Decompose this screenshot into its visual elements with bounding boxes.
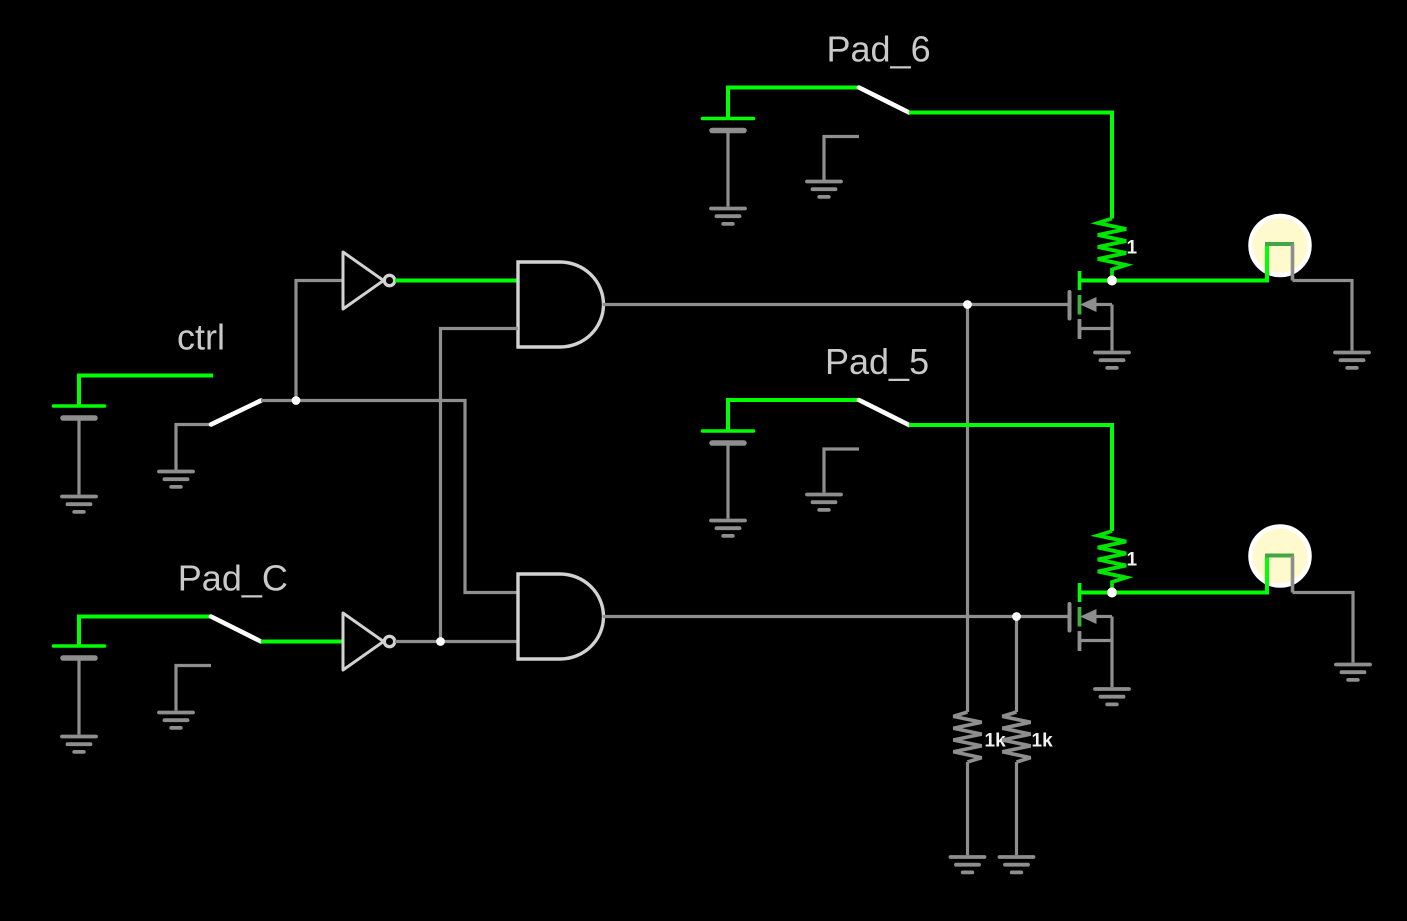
inverter U2 output bubble	[384, 636, 394, 646]
svg-text:ctrl: ctrl	[177, 317, 225, 358]
MOSFET Q2 body lead	[1096, 615, 1112, 618]
node U2 output junction dot	[436, 637, 445, 646]
wire SW_Pad6 pole to resistor R1	[909, 113, 1112, 219]
wire AND U4 output to MOSFET Q2 gate	[603, 615, 1070, 618]
node at U4 output junction dot	[1012, 612, 1021, 621]
svg-text:Pad_5: Pad_5	[825, 341, 929, 382]
MOSFET Q1 drain terminal tick	[1078, 271, 1082, 290]
MOSFET Q2 channel source segment	[1078, 631, 1082, 651]
lamp LP1 filament top bar	[1265, 242, 1294, 246]
wire Q2 source to ground	[1110, 617, 1113, 688]
lamp LP1 filament left leg	[1265, 244, 1269, 283]
wire R3 to ground	[966, 762, 969, 855]
battery V1 (ctrl source) positive lead wire	[79, 376, 213, 407]
battery V1 positive plate	[54, 404, 105, 408]
wire V3 negative to ground	[726, 131, 729, 207]
wire AND U3 input 2 from inverter U2 output node	[441, 329, 519, 642]
battery V4 negative plate	[712, 440, 744, 446]
MOSFET Q2 body diode arrow	[1080, 609, 1097, 624]
wire Q1 source to ground	[1110, 305, 1113, 351]
AND gate U4 body	[518, 574, 604, 659]
switch SW_Pad6 lower throw wire	[824, 137, 859, 181]
node N1 wire (drain of Q1 to lamp LP1)	[1080, 279, 1268, 283]
ground (below R3)	[951, 857, 985, 872]
node N2 junction dot	[1107, 588, 1117, 598]
resistor R1 zigzag	[1098, 219, 1126, 281]
inverter U1 output bubble	[384, 275, 394, 285]
wire V2 negative to ground	[77, 658, 80, 735]
wire SW_ctrl pole to node ctrl	[261, 399, 296, 402]
ground (below V4)	[711, 521, 745, 536]
node at U3 output junction dot	[963, 300, 972, 309]
resistor R3 zigzag	[953, 712, 981, 762]
MOSFET Q1 body lead	[1096, 303, 1112, 306]
ground (below V2)	[62, 737, 96, 752]
ground (lamp LP2)	[1336, 665, 1370, 680]
node N2 wire (drain of Q2 to lamp LP2)	[1080, 591, 1268, 595]
switch SW_PadC lower throw wire	[176, 666, 211, 711]
wire V1 negative to ground	[77, 418, 80, 495]
ground (below V3)	[711, 209, 745, 224]
lamp LP2 filament top bar	[1265, 554, 1294, 558]
MOSFET Q1 channel source segment	[1078, 319, 1082, 339]
battery V3 (Pad_6 source) positive lead wire	[728, 88, 859, 119]
ground (below R4)	[1000, 857, 1034, 872]
MOSFET Q2 drain terminal tick	[1078, 583, 1082, 602]
wire R4 to ground	[1015, 762, 1018, 855]
switch SW_Pad5 lower throw wire	[824, 449, 859, 493]
ground (Pad_6 switch lower throw)	[807, 182, 841, 197]
lamp LP2 filament left leg	[1265, 556, 1269, 595]
MOSFET Q1 source lead	[1080, 327, 1113, 330]
lamp LP1 filament right leg	[1291, 244, 1295, 281]
resistor R4 zigzag	[1002, 712, 1030, 762]
MOSFET Q2 gate bar	[1068, 604, 1072, 631]
ground (below V1)	[62, 497, 96, 512]
svg-text:Pad_C: Pad_C	[178, 558, 288, 599]
wire node at AND U4 output down to resistor R4	[1015, 617, 1018, 713]
battery V2 (Pad_C source) positive lead wire	[79, 617, 211, 647]
battery V4 (Pad_5 source) positive lead wire	[728, 400, 859, 431]
switch SW_Pad5 blade	[859, 400, 909, 425]
MOSFET Q1 gate bar	[1068, 292, 1072, 319]
node ctrl junction dot	[292, 396, 301, 405]
inverter U2 triangle	[343, 613, 384, 670]
svg-text:1: 1	[1127, 238, 1138, 259]
ground (ctrl switch lower throw)	[159, 472, 193, 487]
ground (Q2 source)	[1095, 689, 1129, 704]
wire AND U3 output to MOSFET Q1 gate	[603, 303, 1070, 306]
lamp LP2 filament right leg	[1291, 556, 1295, 593]
resistor R2 zigzag	[1098, 531, 1126, 593]
wire SW_PadC pole to inverter U2 input	[261, 640, 343, 644]
lamp LP2 bulb	[1251, 527, 1310, 586]
wire node ctrl to AND gate U4 input 1	[296, 401, 518, 593]
node N1 junction dot	[1107, 276, 1117, 286]
svg-text:Pad_6: Pad_6	[827, 29, 931, 70]
wire node ctrl to inverter U1 input	[296, 281, 343, 401]
battery V3 negative plate	[712, 128, 744, 134]
MOSFET Q2 channel drain segment	[1078, 607, 1082, 627]
battery V4 positive plate	[703, 429, 754, 433]
switch SW_PadC blade	[211, 617, 261, 642]
wire U1 output to AND gate U3 input 1	[395, 279, 518, 283]
wire U2 output to AND gate U4 input 2	[395, 640, 518, 643]
MOSFET Q1 body diode arrow	[1080, 297, 1097, 312]
wire SW_Pad5 pole to resistor R2	[909, 425, 1112, 531]
switch SW_ctrl lower throw wire	[176, 425, 211, 471]
ground (Pad_C switch lower throw)	[159, 713, 193, 728]
battery V3 positive plate	[703, 117, 754, 121]
ground (Pad_5 switch lower throw)	[807, 495, 841, 510]
wire LP1 to ground	[1293, 281, 1353, 351]
inverter U1 triangle	[343, 252, 384, 309]
ground (Q1 source)	[1095, 353, 1129, 368]
switch SW_Pad6 blade	[859, 88, 909, 113]
MOSFET Q2 source lead	[1080, 639, 1113, 642]
svg-text:1k: 1k	[1032, 731, 1054, 752]
svg-text:1: 1	[1127, 550, 1138, 571]
AND gate U3 body	[518, 262, 604, 347]
battery V2 positive plate	[54, 644, 105, 648]
battery V2 negative plate	[63, 655, 95, 661]
battery V1 negative plate	[63, 415, 95, 421]
wire V4 negative to ground	[726, 443, 729, 519]
switch SW_ctrl blade	[211, 401, 261, 425]
wire LP2 to ground	[1293, 593, 1354, 663]
MOSFET Q1 channel drain segment	[1078, 295, 1082, 315]
lamp LP1 bulb	[1251, 216, 1310, 275]
ground (lamp LP1)	[1335, 353, 1369, 368]
wire node at AND U3 output down to resistor R3	[966, 305, 969, 713]
